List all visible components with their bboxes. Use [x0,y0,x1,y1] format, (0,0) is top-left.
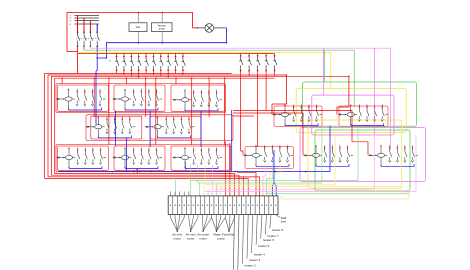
wire terminal 9 down [206,215,208,218]
wire tail M [416,154,419,156]
terminal 12 [220,205,221,206]
wire terminal 14 down [229,215,231,218]
wire feed group K [241,74,243,155]
wire tail B [160,98,163,100]
enclosure row1 outer [56,84,226,113]
breaker G.3 [374,105,377,122]
breaker F13 [256,56,260,70]
wire F10 out [182,71,184,75]
wire load pink h1 [212,135,374,189]
wire heater 5 [256,215,257,245]
breaker G.1 [358,105,361,122]
breaker F8 [167,57,171,70]
wire green low right [266,191,408,194]
enclosure group D [91,116,142,139]
breaker H.1 [77,148,80,165]
enclosure green right top [302,82,416,126]
wire load yellow c12 [220,187,222,196]
breaker J.2 [200,148,203,165]
terminal strip X1 [168,196,278,215]
breaker D.1 [106,117,109,134]
wire load yellow h2 [215,127,402,186]
wire F2 out [123,71,125,75]
breaker B.3 [148,89,151,106]
wire magenta drop 3 [373,48,375,135]
svg-text:pump: pump [159,29,165,31]
breaker F14 [265,56,269,70]
RCD group I: residual current device [113,148,132,168]
RCD group K: residual current device [244,146,263,166]
wire L3 stub magenta [89,46,91,48]
enclosure group A [58,85,109,111]
wire pump neutral [161,32,163,43]
wire F9 out [175,71,177,73]
wire feeder x126.4 [125,78,127,84]
wire fan neutral [137,32,139,43]
svg-text:liner: liner [281,220,286,224]
breaker F.3 [308,105,311,122]
breaker F5 [145,57,149,70]
wire tail H [104,157,107,159]
breaker M.3 [404,145,407,162]
wire feeder x62.1 [61,78,63,84]
breaker K.2 [271,145,274,162]
wire terminal 5 down [188,215,190,218]
wire neutral strip leg 1 [272,183,274,196]
wire load green c11 [216,183,218,196]
wire fan bundle 4 [212,218,217,232]
wire terminal 8 down [202,215,204,218]
lamp H1 [197,24,226,33]
wire N stub blue [96,46,98,58]
terminal 3 [179,205,180,206]
wire feed group G [337,76,349,114]
wire terminal 3 down [179,215,181,218]
wire loop red 1 [45,73,249,195]
RCD group D: residual current device [86,118,105,138]
breaker F11 [239,56,243,70]
enclosure magenta right bottom [300,128,426,182]
wire tail G [385,114,388,116]
wire feeder x94.2 [93,78,95,117]
breaker M.2 [396,145,399,162]
terminal 7 [197,205,198,206]
breaker A.4 [99,89,102,106]
wire L2 drop [83,18,85,32]
breaker L.2 [331,145,334,162]
wire tail J [220,157,223,159]
breaker F4 [137,57,141,70]
wire tail C [220,99,223,101]
wire load pink c10 [211,192,213,196]
wire F15 out [274,72,276,77]
wire feeder x145.7 [145,78,147,117]
breaker B.4 [155,89,158,106]
RCD group M: residual current device [369,146,388,166]
breaker I.1 [133,148,136,165]
wire load green c6 [190,165,192,196]
breaker K.4 [286,145,289,162]
svg-text:Fan: Fan [136,25,141,29]
wire F1 out [116,71,118,73]
terminal 16 [239,205,240,206]
breaker F9 [174,57,178,70]
neutral bus of group L [316,164,349,166]
wire terminal 4 up [183,192,185,196]
terminal 24 [275,205,276,206]
wire neutral to strip a [273,150,275,183]
wire neutral link d [125,138,127,172]
breaker H.2 [84,148,87,165]
wire tail I [160,157,163,159]
breaker F10 [182,57,186,70]
wire terminal 5 up [188,192,190,196]
svg-text:N: N [69,24,71,26]
neutral bus of group D [98,135,131,137]
wire neutral link c [200,111,202,147]
RCD group J: residual current device [173,148,192,168]
bus line 2 [75,17,100,19]
wire feed group L [233,113,303,155]
breaker E.3 [180,117,183,134]
wire feed group M [233,111,368,156]
bus line 3 [75,20,100,22]
wire heater 2 [242,215,243,264]
wire heater feed c13 [224,142,226,196]
breaker F3 [130,57,134,70]
enclosure group I [114,146,165,170]
wire neutral link b [149,111,151,147]
wire F13 out [257,72,259,78]
wire load green c22 [266,164,272,196]
neutral bus of group E [158,135,191,137]
wire feeder x155.8 [155,78,157,145]
wire fan bundle 1 [171,218,178,232]
box vacuum pump [152,23,173,32]
enclosure group J [171,146,230,170]
terminal 13 [225,205,226,206]
wire phase L2 distribution green [84,50,354,107]
wire terminal 2 down [174,215,176,218]
svg-text:Vacuum: Vacuum [158,26,166,28]
terminal 8 [202,205,203,206]
wire green drop 1 [324,50,326,82]
neutral bus of group K [256,164,289,166]
breaker F.4 [315,105,318,122]
wire L2 stub green [83,46,85,50]
wire F14 out [265,72,267,75]
wire F12 out [248,72,250,77]
wire tail A [103,98,106,100]
neutral bus of group A [69,108,102,110]
wire magenta drop 2 [390,48,392,150]
breaker F7 [159,57,163,70]
wire magenta drop 1 [323,48,325,95]
terminal 11 [216,205,217,206]
RCD group L: residual current device [304,146,323,166]
neutral bus of group H [69,166,102,168]
wire drop to pump box [161,13,163,23]
wire F5 out [145,71,147,73]
enclosure group K [245,147,294,169]
breaker M.1 [389,145,392,162]
breaker E.2 [173,117,176,134]
wire feeder x209.1 [208,78,210,117]
wire drop to fan box [137,13,139,23]
wire heater 3 [247,215,248,259]
terminal 14 [229,205,230,206]
breaker I.2 [140,148,143,165]
RCD group E: residual current device [145,118,164,138]
wire tail K [291,154,294,156]
wire neutral right link [329,126,331,172]
wire fan bundle 2 [189,218,191,232]
breaker D.2 [114,117,117,134]
wire feeder x176 [175,78,177,84]
wire F4 out [138,71,140,78]
wire red drop row3 [136,169,138,174]
wire terminal 2 up [174,192,176,196]
breaker F.2 [300,105,303,122]
breaker L.3 [339,145,342,162]
wire neutral right vertical [231,110,233,172]
wire terminal 1 up [169,192,171,196]
terminal 1 [170,205,171,206]
wire F11 out [240,72,242,75]
terminal 2 [175,205,176,206]
wire load green c7 [199,183,201,196]
wire L1 down [77,46,79,73]
wire control supply red [67,13,197,52]
wire heater 7 [265,215,266,235]
enclosure magenta right top [312,95,394,135]
wire load green c2 [175,174,177,196]
wire terminal 1 down [169,215,171,218]
breaker J.3 [208,148,211,165]
RCD group A: residual current device [56,90,75,110]
wire load green h1 [191,126,359,180]
wire feeder x191.7 [191,78,193,145]
wire L3 drop [89,21,91,32]
main breaker Q0 (4-pole) [78,33,80,45]
wire neutral main bus [58,171,330,173]
wire loop red 3 [52,76,349,196]
box fan unit [129,23,147,32]
enclosure group G [339,106,388,127]
enclosure yellow right top [296,89,406,133]
breaker C.1 [193,90,196,107]
wire heater feed c14 [229,143,231,196]
RCD group B: residual current device [113,90,132,110]
wire feeder x224.7 [224,78,226,145]
wire neutral strip leg 2 [274,183,276,196]
enclosure yellow right bottom [308,120,402,188]
wire heater 4 [252,215,253,254]
breaker H.4 [99,148,102,165]
breaker J.1 [193,148,196,165]
wire neutral link a [115,111,117,146]
wire feeder x108.9 [108,78,110,145]
terminal 10 [211,205,212,206]
breaker C.4 [215,90,218,107]
breaker D.4 [129,117,132,134]
breaker F12 [248,56,252,70]
breaker E.1 [165,117,168,134]
breaker D.3 [121,117,124,134]
breaker row F11..F15 [240,53,242,55]
svg-text:motor: motor [173,236,181,240]
terminal 9 [207,205,208,206]
breaker F2 [123,57,127,70]
svg-text:motor: motor [199,236,207,240]
terminal 5 [188,205,189,206]
wire tail E [192,126,195,128]
breaker A.2 [84,89,87,106]
wire yellow low right [281,192,409,200]
enclosure group H [58,146,109,170]
wire feed group F [272,75,286,115]
enclosure row2 outer [86,115,233,141]
enclosure row3 outer [56,145,230,172]
bus line 4 [75,23,100,25]
breaker F.1 [293,105,296,122]
svg-text:heater 7: heater 7 [268,234,279,238]
neutral bus of group G [351,123,384,125]
wire terminal 3 up [179,192,181,196]
wire heater feed c19 [237,172,256,196]
svg-text:heater 2: heater 2 [245,263,256,267]
wire load pink c9 [207,189,209,196]
breaker L.4 [346,145,349,162]
svg-text:heater 5: heater 5 [258,244,269,248]
wire terminal 10 down [211,215,213,218]
svg-text:heater 4: heater 4 [254,253,265,257]
wire heater 8 [270,215,271,229]
wire terminal 13 down [224,215,226,218]
wire terminal 6 down [192,215,194,218]
wire phase distribution yellow [78,53,331,89]
breaker B.2 [140,89,143,106]
terminal 15 [234,205,235,206]
enclosure group C [171,85,225,111]
breaker K.1 [264,145,267,162]
terminal 18 [248,205,249,206]
breaker E.4 [188,117,191,134]
wire phase L1 feed to breaker rows [78,52,275,54]
wire neutral J link dashed [185,162,187,172]
terminal 20 [257,205,258,206]
wire F8 out [167,71,169,78]
terminal 19 [252,205,253,206]
wire load pink h2 [205,135,416,192]
wire tail D [133,126,136,128]
terminal 17 [243,205,244,206]
wire heater 6 [261,215,262,239]
neutral bus of group I [125,166,158,168]
RCD group H: residual current device [57,148,76,168]
wire load yellow h1 [205,133,335,185]
wire terminal 4 down [183,215,185,218]
wire loop red 2 [48,75,286,196]
wire tail L [351,154,354,156]
breaker A.3 [91,89,94,106]
wire load pink c21 [263,164,266,196]
enclosure group F [274,106,322,127]
wire red branch [233,115,254,117]
breaker H.3 [92,148,95,165]
breaker I.4 [155,148,158,165]
svg-text:Q1: Q1 [109,61,113,63]
enclosure group B [114,85,165,111]
breaker L.1 [324,145,327,162]
breaker B.1 [133,89,136,106]
wire terminal 7 down [197,215,199,218]
wire loop red 4 [55,78,275,196]
wire F7 out [160,71,162,76]
neutral bus of group F [285,123,318,125]
wire F14 down [265,74,267,110]
terminal 21 [261,205,262,206]
neutral bus of group C [185,108,218,110]
wire wall liner [276,215,280,218]
breaker F1 [115,57,119,70]
breaker A.1 [76,89,79,106]
wire N drop [96,24,98,32]
svg-text:heater 3: heater 3 [249,258,260,262]
breaker F15 [273,56,277,70]
wire fan bundle 3 [202,218,205,232]
wire heater feed c20 [237,177,260,196]
bus line 1 [75,15,100,17]
wire phase L3 distribution magenta [90,47,390,49]
svg-text:pump: pump [217,236,225,240]
breaker K.3 [279,145,282,162]
RCD group C: residual current device [173,91,192,111]
wire heater 1 pair [233,215,234,270]
svg-text:L3: L3 [69,21,72,23]
terminal 22 [266,205,267,206]
wire F6 out [152,71,154,75]
wire lamp neutral return blue [97,28,226,58]
breaker I.3 [148,148,151,165]
neutral bus of group M [381,164,414,166]
neutral bus of group B [125,108,158,110]
enclosure green right bottom [315,130,410,191]
wire load green h2 [198,126,322,183]
enclosure group E [150,116,201,139]
breaker G.2 [366,105,369,122]
wire F13 down [257,74,259,147]
breaker C.3 [208,90,211,107]
breaker mechanical link [76,37,100,39]
wire to L1 junction [67,51,78,53]
breaker M.4 [411,145,414,162]
wire L1 drop [77,16,79,32]
svg-text:heater 6: heater 6 [263,238,274,242]
wire neutral trunk down [96,58,97,125]
breaker G.4 [381,105,384,122]
wire fan bundle 5 [225,218,229,232]
wire terminal 11 down [215,215,217,218]
neutral bus of group J [185,166,218,168]
wire terminal 15 down [234,215,236,218]
RCD group G: residual current device [338,105,357,125]
wire tail F [320,114,323,116]
wire load yellow c8 [203,185,205,196]
terminal 4 [184,205,185,206]
terminal 6 [193,205,194,206]
wire load yellow c23 [270,164,280,196]
